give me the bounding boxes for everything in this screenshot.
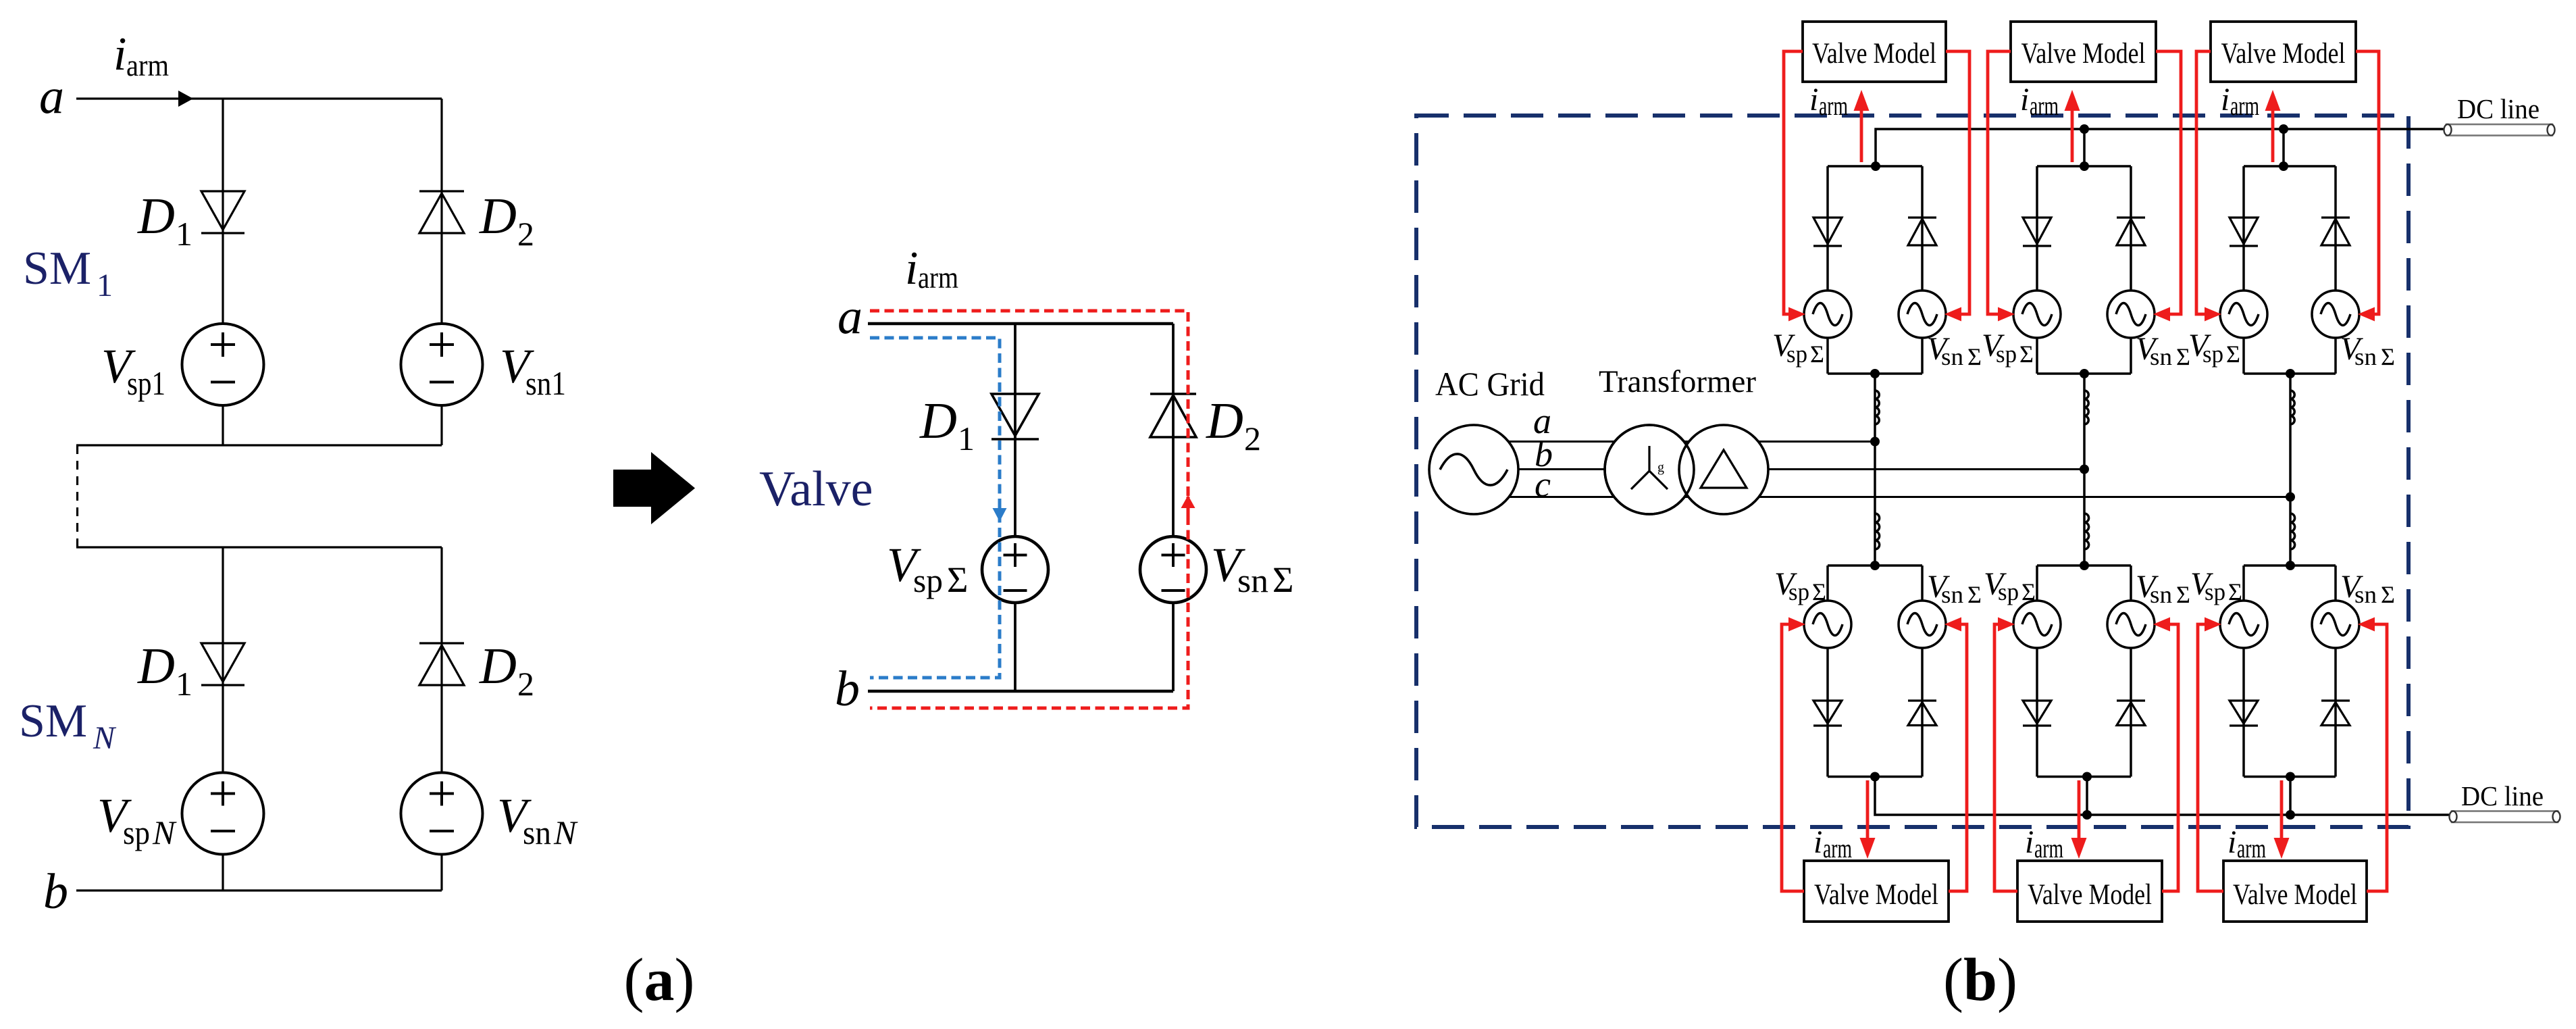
svg-text:Σ: Σ: [2381, 581, 2395, 608]
label D2 of SMN: [479, 638, 534, 703]
red arrowhead into V_sn upper leg 3: [2358, 307, 2375, 322]
junction: leg 2 lower-arm top node: [2080, 561, 2089, 570]
label i_arm top leg 2: [2020, 82, 2059, 121]
svg-text:1: 1: [97, 268, 113, 303]
wire: leg 2 upper-left branch low: [2036, 338, 2038, 374]
red arrowhead into V_sn upper leg 2: [2153, 307, 2170, 322]
label V_sp lower leg 1: [1774, 566, 1826, 605]
red feedback wire top-left leg 3: [2196, 51, 2211, 314]
diode D1 lower leg 2: [2023, 701, 2051, 726]
label DC line (bottom): [2461, 780, 2544, 811]
AC source V_sn upper leg 1: [1899, 291, 1946, 338]
red feedback wire top-right leg 2: [2156, 51, 2181, 314]
red arrowhead into V_sp upper leg 1: [1788, 307, 1805, 322]
red feedback wire bottom-left leg 2: [1994, 624, 2017, 891]
diode D2 lower leg 2: [2117, 701, 2145, 726]
wire: leg 1 upper-right branch low: [1921, 338, 1924, 374]
junction: leg 3 lower-arm bottom node: [2286, 772, 2295, 782]
wire: dashed continuation link: [76, 445, 78, 547]
wire: leg 1 lower-right mid: [1921, 648, 1924, 777]
svg-text:i: i: [2025, 824, 2034, 860]
AC source V_sn lower leg 3: [2312, 601, 2359, 648]
wire: leg 2 upper-arm top rail: [2037, 165, 2131, 168]
wire: valve right branch lower: [1172, 603, 1175, 691]
wire: leg 3 phase column: [2289, 374, 2292, 566]
wire: right branch of SM1: [440, 99, 442, 324]
svg-text:sn: sn: [1941, 581, 1963, 608]
svg-text:i: i: [113, 28, 126, 80]
red arrowhead into V_sp lower leg 1: [1788, 618, 1805, 632]
wire: leg 2 upper-right branch low: [2130, 338, 2132, 374]
svg-text:1: 1: [176, 665, 192, 703]
svg-text:D: D: [137, 638, 175, 695]
svg-text:arm: arm: [1823, 833, 1852, 863]
svg-text:2: 2: [1244, 420, 1261, 457]
AC source V_sp upper leg 1: [1804, 291, 1851, 338]
wire: bottom rail of SM1: [76, 444, 442, 446]
svg-text:Valve Model: Valve Model: [2021, 38, 2146, 70]
wire: bottom DC bus: [1875, 777, 2452, 815]
arrowhead i_arm on node-a wire: [178, 91, 193, 107]
AC source V_sn upper leg 2: [2107, 291, 2155, 338]
AC source V_sn lower leg 2: [2107, 601, 2155, 648]
label i_arm bottom leg 1: [1813, 824, 1852, 863]
voltage source V_sp of SMN: [182, 773, 264, 855]
svg-text:Valve Model: Valve Model: [2028, 879, 2152, 911]
wire: leg 1 lower-arm bottom rail: [1828, 776, 1922, 778]
junction: leg 2 upper-arm top node: [2080, 161, 2089, 171]
wire: leg 3 lower-right mid: [2334, 648, 2337, 777]
label phase b: [1535, 434, 1553, 474]
label i_arm bottom leg 3: [2227, 824, 2266, 863]
svg-text:D: D: [1206, 393, 1243, 449]
valve model box top leg 1: [1803, 22, 1946, 82]
svg-text:1: 1: [958, 420, 975, 457]
wire: leg 2 lower-arm top rail: [2037, 564, 2131, 567]
wire: leg 3 lower-right branch: [2334, 566, 2337, 601]
label i_arm top leg 1: [1809, 82, 1848, 121]
junction: leg 2 upper-arm bottom node: [2080, 369, 2089, 378]
wire: leg 3 upper-arm top rail: [2244, 165, 2336, 168]
svg-text:sp: sp: [913, 561, 943, 599]
label phase a: [1533, 401, 1551, 441]
svg-text:D: D: [479, 638, 517, 695]
valve model box top leg 2: [2011, 22, 2156, 82]
wire: leg 2 lower-left branch: [2036, 566, 2038, 601]
diode D2 lower leg 3: [2321, 701, 2350, 726]
svg-text:Valve Model: Valve Model: [1814, 879, 1938, 911]
current label i_arm (valve): [905, 243, 958, 295]
diode D2 upper leg 2: [2117, 218, 2145, 245]
label phase c: [1535, 464, 1551, 505]
red arrowhead into V_sn lower leg 3: [2358, 618, 2375, 632]
arm inductor upper leg 3: [2290, 391, 2294, 424]
label V_spN: [97, 788, 177, 851]
svg-text:Σ: Σ: [2381, 343, 2395, 370]
wire: left branch lower of SM1: [222, 405, 224, 446]
wire: leg 2 bottom bus tap: [2086, 777, 2088, 815]
red i_arm arrow top leg 1: [1854, 90, 1870, 162]
svg-text:arm: arm: [1819, 91, 1848, 121]
wire: leg 3 bottom bus tap: [2289, 777, 2292, 815]
wire: leg 3 upper-right branch low: [2334, 338, 2337, 374]
label D1 of SMN: [137, 638, 192, 703]
junction: top bus tap leg 2: [2080, 124, 2089, 134]
delta symbol: [1701, 450, 1747, 488]
wire: leg 1 lower-left mid: [1826, 648, 1829, 777]
transformer wye winding circle: [1605, 425, 1694, 514]
AC source V_sp lower leg 1: [1804, 601, 1851, 648]
junction: leg 2 phase connection: [2080, 465, 2089, 474]
label D2 (valve): [1206, 393, 1261, 457]
red arrowhead into V_sn lower leg 2: [2153, 618, 2170, 632]
diode D2 lower leg 1: [1908, 701, 1936, 726]
svg-text:sn: sn: [523, 813, 551, 851]
label D1 of SM1: [137, 188, 192, 253]
current label i_arm (part a): [113, 28, 169, 82]
wire: bus tap leg 2: [2083, 129, 2086, 166]
diode D2 of SMN: [419, 643, 464, 685]
wire: left branch of SMN: [222, 547, 224, 773]
label V_snSigma: [1211, 538, 1293, 600]
label V_sp upper leg 2: [1982, 328, 2034, 368]
wire: leg 2 lower-left mid: [2036, 648, 2038, 777]
red feedback wire bottom-right leg 3: [2367, 624, 2387, 891]
svg-text:sn: sn: [2150, 343, 2172, 370]
label V_sn1: [500, 339, 566, 402]
wye symbol: [1631, 446, 1668, 489]
phase line c: [1474, 496, 2290, 498]
wire: leg 2 lower-right mid: [2130, 648, 2132, 777]
diode D1 (valve): [991, 394, 1039, 439]
label g (wye grounding): [1657, 460, 1664, 475]
label V_sp1: [101, 339, 165, 402]
voltage source V_spSigma: [982, 536, 1048, 603]
svg-text:sp: sp: [1996, 341, 2017, 368]
wire: leg 1 upper-right branch: [1921, 166, 1924, 291]
blue dashed current path: [870, 338, 1000, 678]
label V_sn lower leg 3: [2340, 569, 2395, 608]
caption (a): [624, 947, 695, 1013]
diode D2 upper leg 1: [1908, 218, 1936, 245]
svg-text:sp: sp: [2203, 341, 2223, 368]
wire: leg 3 upper-left branch low: [2242, 338, 2245, 374]
diode D1 upper leg 2: [2023, 218, 2051, 246]
voltage source V_sp of SM1: [182, 324, 264, 405]
wire: leg 1 upper-left branch low: [1826, 338, 1829, 374]
wire: bus tap leg 3: [2282, 129, 2285, 166]
svg-text:Valve: Valve: [759, 461, 873, 517]
red i_arm arrow bottom leg 3: [2274, 780, 2290, 859]
svg-text:D: D: [137, 188, 175, 245]
svg-text:1: 1: [176, 215, 192, 253]
svg-text:i: i: [2227, 824, 2236, 860]
svg-text:sp: sp: [123, 813, 150, 851]
svg-text:sn: sn: [1941, 343, 1963, 370]
wire: node rail top of SM1: [76, 97, 442, 99]
node a label: [39, 69, 64, 124]
red arrowhead into V_sn lower leg 1: [1944, 618, 1961, 632]
svg-text:sp: sp: [1786, 341, 1807, 368]
wire: leg 2 upper-arm bottom rail: [2037, 372, 2131, 375]
svg-text:N: N: [93, 720, 117, 756]
red arrowhead into V_sp lower leg 3: [2205, 618, 2221, 632]
junction: leg 3 lower-arm top node: [2286, 561, 2295, 570]
svg-text:Σ: Σ: [2021, 578, 2036, 605]
wire: leg 2 lower-right branch: [2130, 566, 2132, 601]
junction: bottom bus tap leg 2: [2082, 810, 2092, 820]
red feedback wire top-left leg 1: [1784, 51, 1803, 314]
svg-text:sp1: sp1: [127, 364, 165, 402]
svg-text:Σ: Σ: [2019, 341, 2034, 368]
diode D1 upper leg 1: [1813, 218, 1842, 246]
svg-text:sn: sn: [2354, 581, 2377, 608]
svg-text:a: a: [838, 289, 862, 345]
red i_arm arrow bottom leg 2: [2071, 780, 2087, 859]
svg-text:AC Grid: AC Grid: [1435, 365, 1545, 403]
svg-text:N: N: [152, 813, 177, 851]
svg-text:sp: sp: [1998, 578, 2019, 605]
red arrowhead up (valve right branch): [1181, 495, 1195, 520]
svg-text:i: i: [1813, 824, 1822, 860]
diode D1 lower leg 1: [1813, 701, 1842, 726]
valve model box top leg 3: [2211, 22, 2356, 82]
red feedback wire bottom-right leg 1: [1949, 624, 1967, 891]
red feedback wire bottom-right leg 2: [2162, 624, 2178, 891]
red feedback wire top-right leg 1: [1946, 51, 1969, 314]
valve model box bottom leg 1: [1804, 861, 1949, 922]
wire: left branch lower of SMN: [222, 854, 224, 890]
DC line capsule (top): [2444, 124, 2555, 136]
wire: leg 3 lower-left branch: [2242, 566, 2245, 601]
label V_snN: [497, 788, 578, 851]
wire: valve bottom rail: [868, 690, 1173, 693]
wire: bottom rail of SMN: [76, 889, 442, 891]
AC grid source circle: [1429, 425, 1518, 514]
phase line a: [1474, 441, 1875, 443]
AC source V_sn upper leg 3: [2312, 291, 2359, 338]
svg-text:Σ: Σ: [1812, 578, 1826, 605]
label D1 (valve): [919, 393, 975, 457]
svg-text:sn1: sn1: [525, 364, 566, 402]
svg-text:i: i: [2221, 82, 2230, 118]
label V_sn lower leg 2: [2136, 569, 2190, 608]
red feedback wire bottom-left leg 1: [1782, 624, 1804, 891]
wire: leg 3 upper-left branch: [2242, 166, 2245, 291]
wire: leg 2 phase column: [2083, 374, 2086, 566]
junction: leg 1 phase connection: [1870, 437, 1880, 447]
wire: valve left branch lower: [1014, 603, 1016, 691]
wire: leg 1 phase column: [1874, 374, 1876, 566]
svg-text:i: i: [1809, 82, 1818, 118]
red feedback wire top-right leg 3: [2356, 51, 2379, 314]
label DC line (top): [2457, 93, 2540, 124]
wire: leg 3 lower-arm bottom rail: [2244, 776, 2336, 778]
arm inductor lower leg 2: [2084, 513, 2089, 549]
node b label: [43, 864, 68, 920]
diode D1 of SMN: [201, 643, 244, 685]
svg-text:Valve Model: Valve Model: [2233, 879, 2357, 911]
diode D1 upper leg 3: [2230, 218, 2258, 246]
svg-text:Σ: Σ: [2228, 578, 2242, 605]
label SM1: [23, 243, 113, 303]
junction: leg 1 upper-arm top node: [1871, 161, 1880, 171]
label V_sp lower leg 3: [2190, 566, 2242, 605]
svg-text:i: i: [2020, 82, 2029, 118]
wire: leg 1 lower-arm top rail: [1828, 564, 1922, 567]
voltage source V_snSigma: [1140, 536, 1206, 603]
svg-text:Σ: Σ: [947, 559, 968, 600]
svg-text:D: D: [479, 188, 517, 245]
svg-text:Transformer: Transformer: [1599, 364, 1756, 399]
svg-text:sn: sn: [2150, 581, 2172, 608]
red arrowhead into V_sp upper leg 3: [2205, 307, 2221, 322]
red arrowhead into V_sn upper leg 1: [1944, 307, 1961, 322]
wire: left branch of SM1: [222, 99, 224, 324]
label V_sn upper leg 2: [2136, 331, 2190, 370]
wire: leg 2 upper-right branch: [2130, 166, 2132, 291]
junction: top bus tap leg 3: [2279, 124, 2288, 134]
label AC Grid: [1435, 365, 1545, 403]
wire: valve right branch: [1172, 324, 1175, 536]
svg-text:sp: sp: [2205, 578, 2225, 605]
voltage source V_sn of SMN: [401, 773, 483, 855]
svg-text:(a): (a): [624, 947, 695, 1013]
transform arrow symbol: [613, 452, 695, 524]
svg-text:arm: arm: [126, 48, 169, 82]
transformer delta winding circle: [1679, 425, 1768, 514]
wire: leg 1 upper-arm bottom rail: [1828, 372, 1922, 375]
svg-text:DC line: DC line: [2457, 93, 2540, 124]
diode D2 upper leg 3: [2321, 218, 2350, 245]
wire: leg 1 upper-arm top rail: [1828, 165, 1922, 168]
wire: leg 1 upper-left branch: [1826, 166, 1829, 291]
wire: right branch lower of SM1: [440, 405, 442, 446]
svg-text:i: i: [905, 243, 918, 295]
svg-text:c: c: [1535, 464, 1551, 505]
junction: leg 1 lower-arm bottom node: [1870, 772, 1880, 782]
junction: leg 1 lower-arm top node: [1870, 561, 1880, 570]
svg-text:D: D: [919, 393, 957, 449]
valve model box bottom leg 3: [2223, 861, 2367, 922]
svg-text:b: b: [835, 661, 860, 717]
phase line b: [1474, 468, 2084, 470]
label V_sp upper leg 3: [2188, 328, 2240, 368]
svg-text:Σ: Σ: [1967, 343, 1982, 370]
wire: right branch lower of SMN: [440, 854, 442, 890]
wire: valve left branch: [1014, 324, 1016, 536]
wire: leg 2 lower-arm bottom rail: [2037, 776, 2131, 778]
svg-text:sp: sp: [1788, 578, 1809, 605]
voltage source V_sn of SM1: [401, 324, 483, 405]
svg-text:arm: arm: [2237, 833, 2266, 863]
svg-text:arm: arm: [2034, 833, 2063, 863]
svg-text:DC line: DC line: [2461, 780, 2544, 811]
red dashed current path i_arm: [870, 311, 1188, 708]
svg-text:2: 2: [517, 665, 534, 703]
DC line capsule (bottom): [2450, 811, 2560, 823]
svg-text:arm: arm: [2030, 91, 2059, 121]
svg-text:2: 2: [517, 215, 534, 253]
arm inductor upper leg 2: [2084, 391, 2088, 424]
label V_sp lower leg 2: [1984, 566, 2036, 605]
wire: valve top rail: [868, 322, 1173, 325]
caption (b): [1943, 947, 2017, 1013]
arm inductor lower leg 3: [2290, 513, 2295, 549]
red i_arm arrow bottom leg 1: [1860, 780, 1876, 859]
AC source V_sp upper leg 3: [2220, 291, 2267, 338]
junction: leg 2 lower-arm bottom node: [2082, 772, 2092, 782]
red i_arm arrow top leg 3: [2265, 90, 2281, 162]
junction: leg 3 upper-arm top node: [2279, 161, 2288, 171]
label V_spSigma: [887, 538, 968, 600]
svg-text:Σ: Σ: [1967, 581, 1982, 608]
AC source V_sp lower leg 3: [2220, 601, 2267, 648]
blue arrowhead down (valve left branch): [993, 501, 1007, 522]
red arrowhead into V_sp lower leg 2: [1998, 618, 2015, 632]
wire: leg 1 lower-left branch: [1826, 566, 1829, 601]
red feedback wire bottom-left leg 3: [2198, 624, 2223, 891]
wire: leg 3 lower-left mid: [2242, 648, 2245, 777]
svg-text:arm: arm: [918, 260, 958, 295]
wire: leg 3 upper-right branch: [2334, 166, 2337, 291]
wire: leg 3 upper-arm bottom rail: [2244, 372, 2336, 375]
junction: bottom bus tap leg 3: [2286, 810, 2295, 820]
svg-text:N: N: [553, 813, 578, 851]
red i_arm arrow top leg 2: [2065, 90, 2080, 162]
label i_arm top leg 3: [2221, 82, 2259, 121]
wire: leg 2 upper-left branch: [2036, 166, 2038, 291]
svg-text:Σ: Σ: [2176, 581, 2190, 608]
diode D1 of SM1: [201, 191, 244, 233]
junction: leg 3 upper-arm bottom node: [2286, 369, 2295, 378]
label V_sp upper leg 1: [1772, 328, 1824, 368]
svg-text:SM: SM: [23, 243, 91, 295]
svg-text:Σ: Σ: [1272, 559, 1293, 600]
svg-text:g: g: [1657, 460, 1664, 475]
label V_sn upper leg 1: [1927, 331, 1982, 370]
wire: leg 1 lower-right branch: [1921, 566, 1924, 601]
diode D1 lower leg 3: [2230, 701, 2258, 726]
label D2 of SM1: [479, 188, 534, 253]
svg-text:SM: SM: [19, 695, 87, 747]
AC source V_sp lower leg 2: [2013, 601, 2061, 648]
label i_arm bottom leg 2: [2025, 824, 2063, 863]
red feedback wire top-left leg 2: [1988, 51, 2011, 314]
red arrowhead into V_sp upper leg 2: [1998, 307, 2015, 322]
AC source V_sn lower leg 1: [1899, 601, 1946, 648]
svg-text:b: b: [43, 864, 68, 920]
dashed model boundary box: [1416, 116, 2408, 827]
label Transformer: [1599, 364, 1756, 399]
svg-text:Σ: Σ: [2226, 341, 2240, 368]
AC source V_sp upper leg 2: [2013, 291, 2061, 338]
valve model box bottom leg 2: [2017, 861, 2162, 922]
svg-text:a: a: [39, 69, 64, 124]
wire: leg 3 lower-arm top rail: [2244, 564, 2336, 567]
label V_sn lower leg 1: [1927, 569, 1982, 608]
svg-text:sn: sn: [1237, 561, 1268, 599]
label Valve: [759, 461, 873, 517]
transformer wye circle outline overlap: [1605, 425, 1694, 514]
node b label (valve): [835, 661, 860, 717]
junction: leg 1 upper-arm bottom node: [1870, 369, 1880, 378]
svg-text:Valve Model: Valve Model: [2221, 38, 2346, 70]
wire: node rail top of SMN: [76, 546, 442, 548]
wire: top DC bus: [1876, 129, 2446, 166]
diode D2 (valve): [1150, 394, 1196, 437]
diode D2 of SM1: [419, 191, 464, 233]
